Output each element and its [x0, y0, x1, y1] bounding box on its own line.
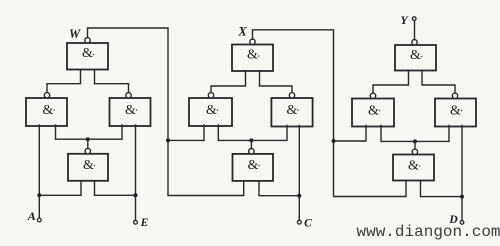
gate G2 (middle-left NAND of block 1)	[26, 93, 67, 126]
wire input E net: up to G3, branch to G4 right input	[135, 125, 137, 220]
node junction on W-line	[166, 138, 170, 142]
terminal D circle	[460, 221, 464, 225]
svg-text:&: &	[83, 158, 94, 173]
wire G12 right input to D junction	[421, 181, 463, 197]
node A junction	[37, 193, 41, 197]
wire X output net: bubble up, right, down to block 3 lower-left	[253, 30, 407, 197]
node junction feeding from G8 output	[249, 138, 253, 142]
node E junction	[134, 193, 138, 197]
svg-text:&: &	[410, 48, 421, 63]
wire G9 left input from G10 output	[373, 71, 409, 94]
wire G5 left input from G6 output	[211, 71, 246, 93]
wire junction down to G12 bubble	[414, 141, 416, 149]
terminal C circle	[297, 220, 301, 224]
wire junction down to G8 bubble	[250, 140, 252, 148]
gate G3 (middle-right NAND of block 1)	[110, 93, 151, 126]
gate G12 (bottom NAND of block 3)	[393, 149, 434, 180]
svg-text:E: E	[140, 217, 149, 229]
node junction feeding from G12 output	[413, 139, 417, 143]
wire G5 right input from G7 output	[260, 71, 293, 93]
node D junction	[460, 195, 464, 199]
wire junction down to G4 bubble	[87, 139, 89, 148]
wire E branch horizontal	[95, 181, 136, 196]
gate G9 (top NAND of block 3)	[395, 40, 436, 71]
gate G5 (top NAND of block 2)	[232, 39, 273, 71]
gate G1 (top NAND of block 1)	[67, 38, 108, 70]
wire G2.right-in to G3.left-in cross wire	[56, 125, 123, 139]
terminal A circle	[37, 218, 41, 222]
wire A branch horizontal	[39, 181, 81, 196]
wire G1 left input from G2 output	[47, 70, 81, 93]
svg-text:&: &	[206, 103, 217, 118]
gate G4 (bottom NAND of block 1)	[68, 148, 108, 180]
wire Y output: bubble up to terminal	[414, 20, 416, 39]
gate G7 (middle-right NAND of block 2)	[271, 93, 312, 127]
svg-text:&: &	[82, 46, 93, 61]
svg-text:X: X	[237, 25, 247, 39]
svg-text:A: A	[27, 209, 36, 223]
node junction on X-line	[332, 139, 336, 143]
wire G6.right-in to G7.left-in cross wire	[218, 125, 287, 140]
wire input A net: up to G2, branch to G4 left input	[38, 125, 40, 218]
svg-text:&: &	[43, 103, 54, 118]
gate G10 (middle-left NAND of block 3)	[352, 93, 394, 126]
node C junction	[297, 194, 301, 198]
wire G9 right input from G11 output	[422, 71, 455, 94]
svg-text:www.diangon.com: www.diangon.com	[357, 223, 500, 241]
wire input C net: up to G7 right input, down to terminal	[298, 126, 300, 221]
gate G8 (bottom NAND of block 2)	[233, 149, 274, 181]
svg-text:&: &	[408, 158, 419, 173]
svg-text:W: W	[69, 27, 81, 41]
wire input D net: up to G11 right input, down to terminal	[461, 126, 463, 221]
svg-text:&: &	[368, 104, 379, 119]
terminal Y circle	[412, 17, 416, 21]
wire G1 right input from G3 output	[95, 70, 129, 93]
svg-text:&: &	[287, 103, 298, 118]
gate G11 (middle-right NAND of block 3)	[435, 93, 476, 126]
svg-text:&: &	[450, 104, 461, 119]
wire W-line branch to G6 left input	[168, 125, 204, 140]
gate G6 (middle-left NAND of block 2)	[189, 93, 232, 126]
svg-text:&: &	[247, 48, 258, 63]
node junction feeding from G4 output	[86, 137, 90, 141]
svg-text:&: &	[248, 158, 259, 173]
wire X-line branch to G10 left input	[334, 126, 367, 142]
wire W output net: bubble up, right, down to block 2 lower-left	[88, 28, 244, 196]
wire G10.right-in to G11.left-in cross wire	[381, 126, 449, 142]
terminal E circle	[134, 220, 138, 224]
wire G8 right input to C junction	[259, 181, 299, 196]
svg-text:&: &	[125, 103, 136, 118]
svg-text:C: C	[304, 218, 312, 230]
